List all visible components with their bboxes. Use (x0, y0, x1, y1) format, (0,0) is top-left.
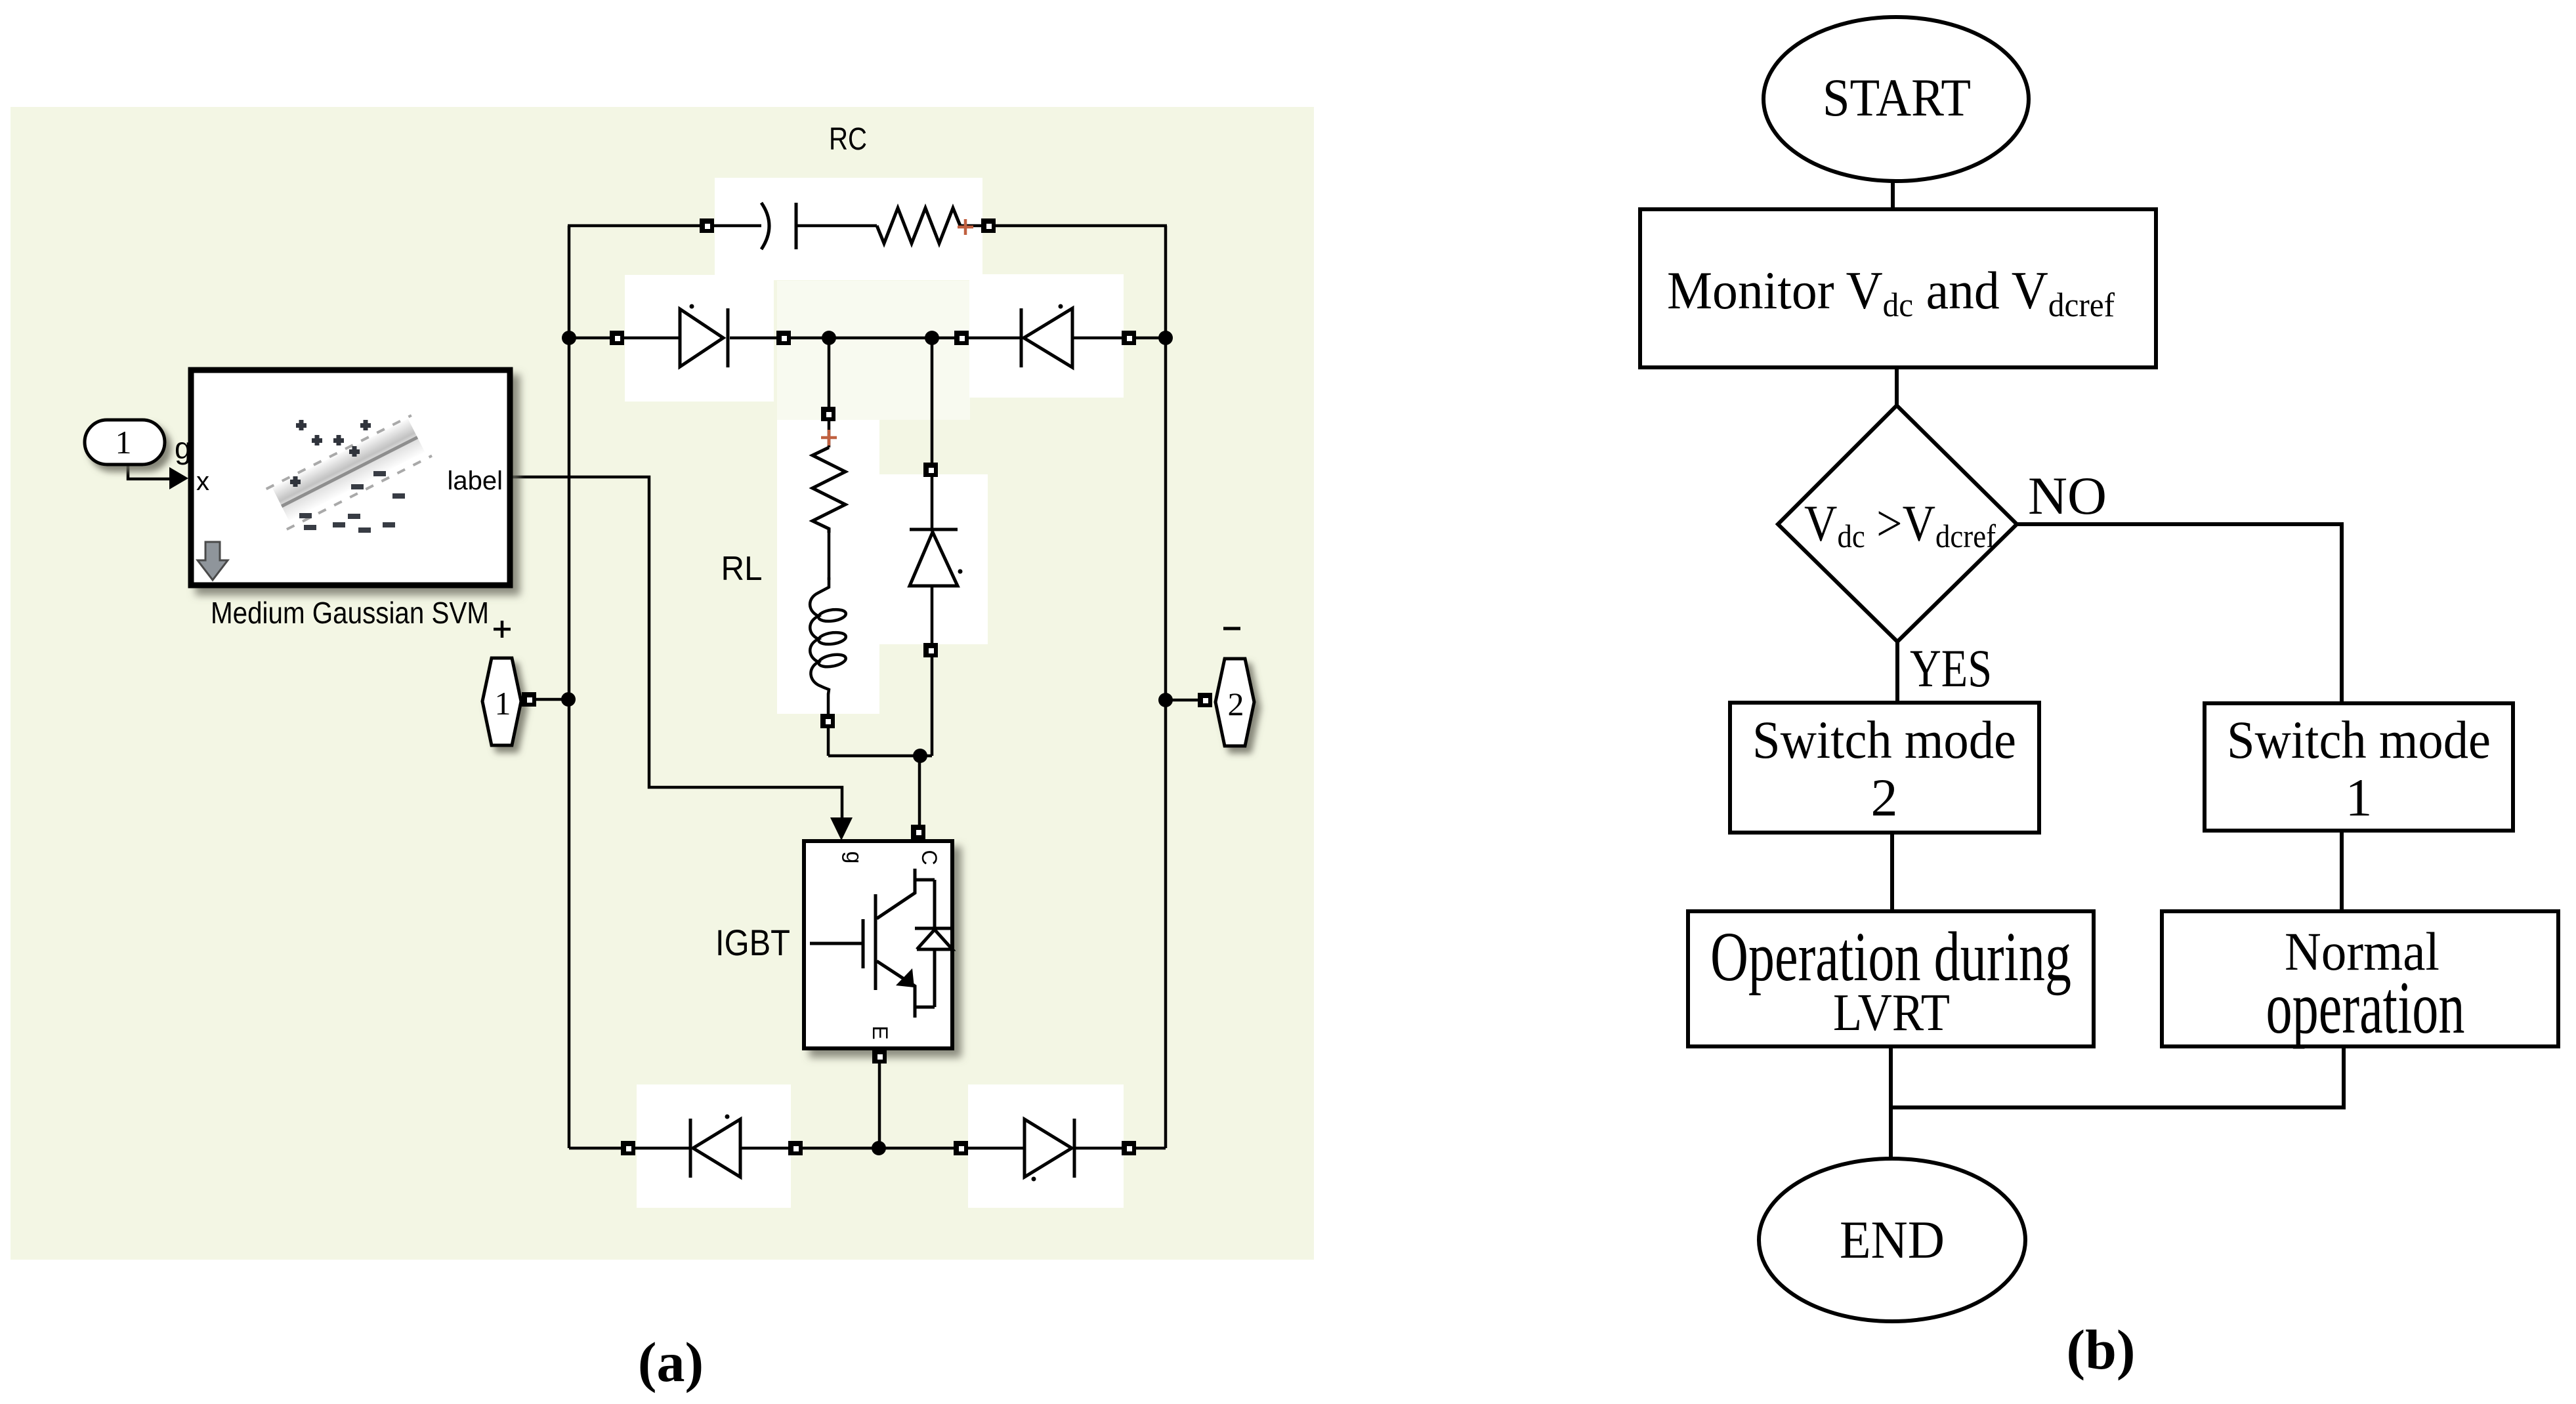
svg-text:E: E (868, 1025, 892, 1039)
diode D2 (upper right, pointing left) (1021, 308, 1072, 367)
svg-text:1: 1 (116, 424, 132, 461)
pad D1 left (610, 331, 624, 345)
wire: RL resistor to inductor link and bottom stub (828, 533, 831, 580)
flow wire: Switch mode 2 to Operation during LVRT (1890, 833, 1894, 911)
junction node: RL bottom / collector (913, 749, 927, 763)
wire: RL bottom horizontal to freewheel branch (828, 754, 932, 758)
SVM icon: class - markers (299, 471, 405, 533)
connector pads (Simulink ports) (522, 218, 1212, 1155)
polarity mark + (RC resistor, orange) (958, 219, 973, 235)
wire: SVM label output to IGBT gate (routing) (513, 477, 842, 820)
svg-text:1: 1 (2346, 768, 2373, 827)
wire: top rail right segment from RC branch (960, 224, 1167, 228)
svg-text:Switch mode: Switch mode (2227, 710, 2491, 770)
svg-text:2: 2 (1228, 686, 1244, 722)
artifact dot near D5 (958, 569, 963, 574)
junction node: left bus / port 1 (561, 692, 576, 707)
svg-text:label: label (447, 466, 503, 495)
wire: collector lead down to IGBT (918, 756, 921, 838)
wire: PMC port 1 to left bus (529, 698, 568, 701)
pad RC left (700, 218, 714, 233)
wire: freewheel diode branch vertical (931, 338, 934, 531)
svg-text:RC: RC (829, 122, 867, 157)
flow wire: decision YES branch (1895, 641, 1899, 703)
pad RL top (821, 407, 835, 421)
PMC port 2 (hexagon, - terminal) (1215, 659, 1254, 746)
svg-text:(a): (a) (638, 1331, 704, 1394)
svg-text:START: START (1823, 68, 1971, 127)
block background white box: RC series branch (715, 178, 982, 280)
svg-text:x: x (196, 467, 209, 496)
PANEL B : flowchart (1640, 17, 2558, 1381)
flow wire: decision NO branch (2016, 524, 2342, 703)
artifact dot near D4 (1032, 1177, 1036, 1182)
block background white box: diode D3 (637, 1084, 791, 1208)
pad port 2 (1198, 693, 1212, 707)
artifact dot near D1 (690, 304, 694, 309)
svg-text:LVRT: LVRT (1833, 984, 1950, 1042)
PMC port 1 (hexagon, + terminal) (482, 658, 521, 745)
svg-text:g: g (841, 852, 866, 864)
wire: top rail left segment to RC branch (568, 224, 761, 228)
junction node: emitter / bottom diode row (872, 1141, 886, 1155)
svg-text:IGBT: IGBT (715, 922, 790, 963)
flow wire: Operation during LVRT to END (1889, 1046, 1893, 1159)
wire: right bus to PMC port 2 (1166, 699, 1205, 702)
pad IGBT collector (911, 825, 925, 839)
flow wire: START to Monitor (1891, 181, 1895, 209)
junction node: diode row / freewheel branch (925, 331, 939, 345)
pad D3 right (788, 1141, 803, 1155)
flow node: Operation during LVRT box (1688, 911, 2094, 1046)
pad D2 right (1122, 331, 1136, 345)
block background translucent box: snubber region (777, 281, 970, 420)
pad D4 left (954, 1141, 968, 1155)
pad RL bottom (820, 714, 835, 728)
svg-text:(b): (b) (2066, 1318, 2135, 1381)
wire: right DC bus vertical (1164, 226, 1168, 1148)
svg-text:Switch mode: Switch mode (1752, 710, 2016, 770)
svg-text:YES: YES (1910, 638, 1992, 698)
polarity mark + (RL resistor, orange) (821, 430, 837, 445)
IGBT symbol (810, 869, 954, 1018)
diode D5 (freewheel, pointing up) (910, 529, 958, 586)
flow node: decision diamond (1778, 405, 2017, 642)
capacitor C (RC snubber) (761, 203, 796, 249)
wire: RC branch middle segment (cap plate to resistor) (796, 224, 877, 228)
block background white box: diode D1 (625, 275, 774, 402)
flow text: Operation during LVRT (1710, 918, 2071, 996)
artifact dot near D2 (1059, 304, 1063, 309)
svg-text:Vdc >Vdcref: Vdc >Vdcref (1804, 495, 1996, 554)
resistor R (RC snubber) (877, 208, 960, 243)
IGBT emitter arrowhead (896, 968, 914, 987)
diode D4 (bottom right, pointing right) (1024, 1119, 1074, 1178)
svg-text:1: 1 (495, 685, 511, 722)
arrowhead into SVM x input (169, 467, 188, 489)
flow node: START ellipse (1763, 17, 2029, 181)
label + (port 1 polarity) (494, 621, 511, 638)
IGBT block (804, 841, 954, 1048)
svg-text:operation: operation (2266, 966, 2465, 1050)
SVM icon: gray download arrow (198, 542, 228, 580)
junction node: diode row / RL branch (822, 331, 836, 345)
pad D3 left (621, 1141, 635, 1155)
pad RC right (981, 218, 996, 233)
svg-text:Monitor Vdc and Vdcref: Monitor Vdc and Vdcref (1667, 260, 2115, 324)
artifact dot near D3 (725, 1115, 730, 1119)
pad D1 right (776, 331, 791, 345)
flow wire: Monitor to decision (1895, 367, 1899, 407)
SVM icon: class + markers (290, 420, 371, 487)
block background white box: diode D4 (968, 1084, 1124, 1208)
pad IGBT emitter (872, 1049, 887, 1063)
input port block 1 (oval inport) (85, 420, 165, 465)
flow wire: Switch mode 1 to Normal operation (2340, 831, 2344, 911)
svg-text:2: 2 (1871, 768, 1898, 827)
SVM icon: margin band (266, 415, 432, 529)
pad D5 bottom (923, 643, 938, 657)
wire: bottom diode row (569, 1147, 690, 1150)
wire: emitter lead from IGBT to bottom diode row (878, 1050, 881, 1148)
SVM classifier block U1 (191, 370, 510, 585)
pad D5 top (923, 463, 938, 477)
wire: RL branch top stub (828, 338, 831, 447)
block background white box: RL series branch (777, 420, 879, 714)
wire: upper diode row (569, 337, 680, 340)
svg-text:RL: RL (721, 550, 763, 588)
flow node: Monitor process box (1640, 209, 2156, 367)
flow wire: Normal operation merge (1891, 1046, 2344, 1107)
flow node: END ellipse (1759, 1159, 2025, 1321)
pad D2 left (954, 331, 969, 345)
junction node: diode row / right bus (1158, 331, 1173, 345)
wire: input port 1 to SVM x input (128, 465, 172, 479)
label - (port 2 polarity) (1223, 627, 1240, 630)
diode D1 (upper left, pointing right) (680, 308, 728, 367)
block background white box: diode D2 (969, 274, 1124, 398)
svg-text:C: C (918, 850, 941, 865)
junction node: left bus / diode row (562, 331, 576, 345)
pad D4 right (1122, 1141, 1136, 1155)
flow node: Switch mode 1 box (2205, 703, 2513, 831)
arrowhead into IGBT gate (830, 817, 853, 840)
svg-text:NO: NO (2028, 466, 2107, 526)
inductor L (RL branch) (810, 577, 847, 694)
diode D3 (bottom left, pointing left) (690, 1119, 740, 1178)
wire: left DC bus vertical (568, 226, 571, 1148)
flow node: Switch mode 2 box (1730, 703, 2039, 833)
svg-text:Medium Gaussian SVM: Medium Gaussian SVM (211, 596, 489, 630)
svg-text:END: END (1840, 1210, 1945, 1270)
schematic canvas background (11, 107, 1314, 1260)
block background white box: diode D5 (879, 474, 988, 644)
junction node: right bus / port 2 (1158, 693, 1173, 707)
flow node: Normal operation box (2162, 911, 2558, 1046)
pad port 1 (522, 692, 536, 707)
resistor R (RL branch) (813, 447, 845, 533)
